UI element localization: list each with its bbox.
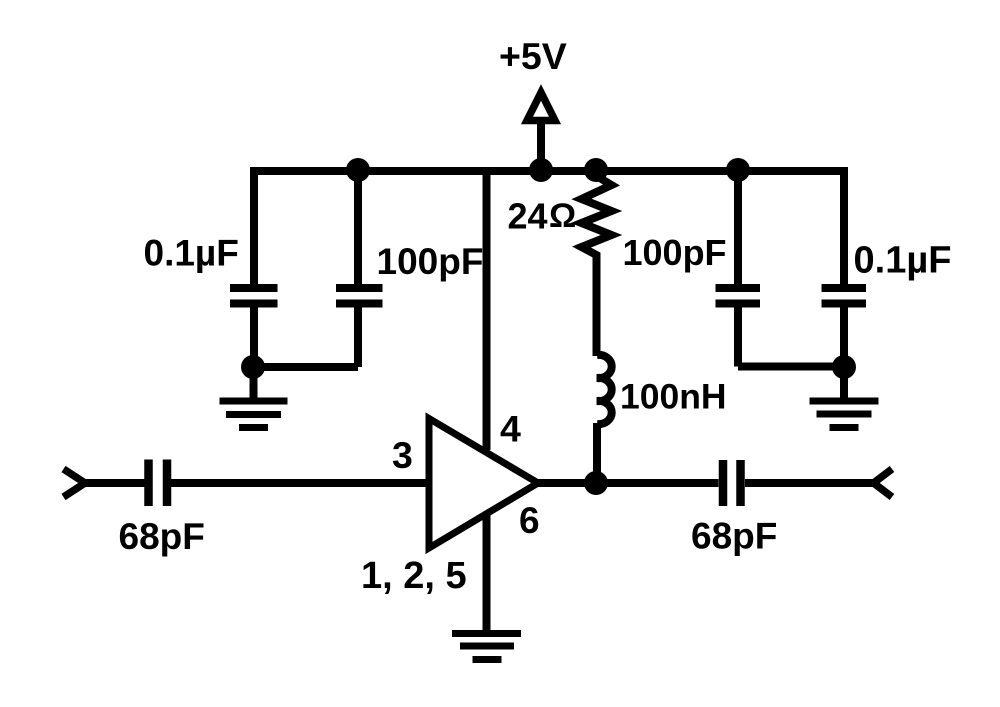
capacitor C4 0.1uF (right): [822, 284, 867, 292]
wire: R1 to L1: [593, 257, 601, 356]
wire: +5V stem: [537, 121, 545, 171]
wire: right rail drop to C4: [840, 167, 848, 285]
power symbol +5V (triangle): [527, 93, 555, 121]
capacitor C3 100pF (right): [716, 284, 761, 292]
wire: amp output to node: [538, 479, 719, 487]
capacitor C5 68pF (input): [144, 460, 153, 507]
svg-text:4: 4: [500, 408, 521, 450]
junction: right bypass node: [832, 355, 856, 379]
svg-text:100nH: 100nH: [620, 377, 727, 417]
capacitor C1 0.1uF (left): [230, 284, 278, 292]
ground: amp: [452, 634, 521, 660]
wire: C4 bottom stub: [840, 306, 848, 367]
junction: rail node above C2: [346, 158, 370, 182]
wire: C5 to amp input pin 3: [171, 479, 430, 487]
resistor R1 24ohm: [582, 171, 612, 258]
op-amp U1 (gain block triangle): [429, 419, 538, 549]
svg-text:+5V: +5V: [499, 35, 567, 77]
connector: output arrow: [874, 469, 893, 497]
svg-text:1, 2, 5: 1, 2, 5: [361, 555, 467, 597]
svg-text:68pF: 68pF: [119, 516, 205, 557]
junction: output node: [584, 471, 608, 495]
junction: left bypass node: [241, 355, 265, 379]
svg-text:3: 3: [392, 434, 413, 476]
wire: C3 bottom stub: [734, 306, 742, 367]
ground: left: [220, 367, 288, 428]
wire: C2 bottom stub: [354, 306, 362, 367]
svg-text:0.1µF: 0.1µF: [854, 240, 952, 282]
capacitor C6 68pF (output): [719, 460, 728, 506]
wire: left rail drop to C1: [250, 167, 258, 285]
inductor L1 100nH: [597, 355, 612, 424]
wire: input to C5: [84, 479, 145, 487]
wire: left node horizontal: [253, 363, 358, 371]
svg-text:100pF: 100pF: [623, 232, 727, 273]
wire: C6 to output connector: [745, 479, 874, 487]
junction: +5V node: [529, 158, 553, 182]
capacitor C2 100pF (left): [336, 284, 383, 292]
ground: right: [810, 367, 879, 428]
wire: right node horizontal: [738, 363, 844, 371]
wire: supply drop to amp pin 4: [483, 171, 491, 450]
connector: input arrow: [64, 469, 86, 497]
wire: C1 bottom stub: [250, 306, 258, 367]
wire: rail drop to C2: [354, 171, 362, 285]
wire: rail drop to C3: [734, 171, 742, 285]
junction: rail node above C3: [726, 158, 750, 182]
svg-text:0.1µF: 0.1µF: [144, 233, 239, 274]
svg-text:Ω: Ω: [549, 197, 576, 235]
junction: rail node above R1: [584, 158, 608, 182]
wire: L1 to output node: [593, 423, 601, 483]
svg-text:100pF: 100pF: [377, 241, 484, 282]
svg-text:6: 6: [519, 500, 540, 541]
wire: amp ground pins 1,2,5: [483, 512, 491, 633]
svg-text:24: 24: [508, 196, 548, 237]
svg-text:68pF: 68pF: [691, 516, 777, 557]
wire: top supply rail: [250, 167, 848, 175]
